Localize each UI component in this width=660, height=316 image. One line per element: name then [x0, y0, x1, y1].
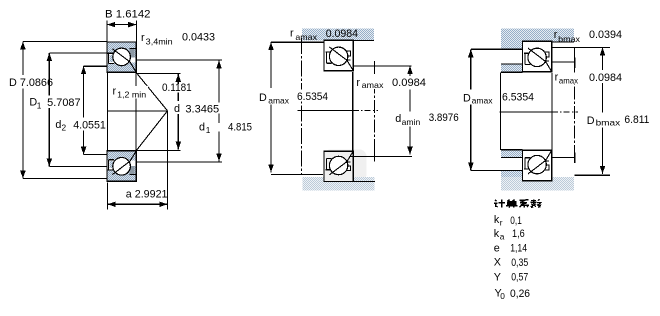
diagram3 ramax line upper: [552, 61, 575, 63]
svg-text:0.0394: 0.0394: [589, 29, 622, 41]
d bottom leader: [137, 149, 181, 151]
svg-text:e: e: [494, 242, 500, 254]
diagram3 shaft shoulder face line: [551, 73, 553, 149]
svg-text:amax: amax: [559, 75, 579, 85]
faint scan artifact blob: [324, 150, 367, 182]
svg-text:0.0433: 0.0433: [182, 32, 215, 44]
svg-text:amin: amin: [402, 117, 421, 127]
Damax dimension line (diagram2): [270, 42, 272, 88]
svg-text:X: X: [494, 257, 501, 269]
D dimension line: [22, 42, 24, 76]
D1 dimension line: [48, 53, 50, 96]
B arrow left: [107, 22, 115, 28]
diagram3 shaft shoulder strip lower-left: [501, 150, 523, 157]
Dbmax bottom leader: [575, 174, 611, 176]
diagram1 top bearing section (outer/inner ring + ball): [107, 42, 136, 72]
diagram2 support section (bottom light blue): [303, 177, 375, 191]
B dimension extension lines: [106, 20, 108, 42]
diagram2 housing bore edge right: [353, 39, 374, 41]
d2 bottom leader: [84, 154, 108, 156]
svg-text:r: r: [554, 29, 558, 41]
diagram1 axis line: [108, 110, 168, 112]
ramax label (middle, diagram2): [355, 76, 386, 89]
D1 top leader: [49, 52, 107, 54]
diagram2 right face tick bottom: [374, 151, 376, 162]
d2 top leader: [84, 65, 107, 67]
d1 top leader: [137, 59, 222, 61]
svg-text:D: D: [587, 115, 595, 127]
diagram1 contact line upper: [136, 73, 167, 111]
D top leader: [23, 40, 107, 42]
Dbmax top leader: [552, 47, 610, 49]
svg-text:1,2 min: 1,2 min: [117, 90, 146, 100]
svg-text:bmax: bmax: [558, 34, 581, 44]
svg-text:6.5354: 6.5354: [502, 91, 534, 103]
diagram3 housing bore edge right: [552, 41, 574, 43]
svg-text:1: 1: [206, 125, 211, 135]
a dimension extension lines: [107, 183, 109, 210]
svg-text:0,57: 0,57: [511, 271, 528, 283]
svg-text:4.815: 4.815: [228, 122, 252, 134]
a dimension line: [108, 203, 168, 205]
svg-text:4.0551: 4.0551: [73, 119, 106, 131]
diagram2 shaft shoulder face line: [352, 72, 354, 151]
D1 bottom leader: [49, 165, 107, 167]
damin top leader: [353, 65, 412, 67]
svg-text:3.8976: 3.8976: [429, 112, 459, 124]
svg-text:amax: amax: [472, 96, 494, 106]
svg-text:0.0984: 0.0984: [589, 72, 622, 84]
diagram2 right face tick top: [374, 62, 376, 73]
svg-text:r: r: [356, 77, 360, 89]
diagram3 axis line solid part: [500, 111, 552, 113]
svg-text:0: 0: [500, 291, 505, 301]
diagram3 shaft shoulder strip upper-left: [501, 64, 523, 72]
svg-text:6.811: 6.811: [624, 114, 649, 126]
diagram3 support section (bottom light blue): [501, 177, 574, 191]
svg-text:d: d: [174, 103, 180, 115]
diagram2 axis line dash-dot part: [353, 110, 378, 112]
diagram2 housing section (top blue): [302, 29, 374, 41]
B dimension line: [107, 24, 136, 26]
svg-text:amax: amax: [268, 95, 290, 105]
svg-text:2: 2: [62, 123, 67, 133]
svg-text:5.7087: 5.7087: [47, 97, 80, 109]
diagram3 housing section (top blue): [501, 29, 574, 43]
damin bottom leader: [351, 156, 413, 158]
svg-text:0,26: 0,26: [510, 288, 530, 300]
table heading 计算系数 (drawn as paths since CJK font unavailable): [494, 199, 541, 207]
d top leader: [137, 72, 181, 74]
svg-text:r: r: [500, 217, 503, 227]
svg-text:r: r: [290, 28, 294, 40]
diagram2 abutment face line right (dashed): [374, 61, 376, 157]
d1 dimension line: [218, 61, 220, 103]
diagram3 housing shoulder strip lower-left: [501, 171, 523, 178]
B arrow right: [128, 22, 136, 28]
svg-text:0,35: 0,35: [511, 257, 528, 269]
svg-text:1: 1: [37, 100, 42, 110]
Damax dimension line (diagram3): [470, 49, 472, 89]
svg-text:d: d: [395, 113, 401, 125]
diagram3 face tick bottom: [574, 153, 576, 164]
svg-text:B 1.6142: B 1.6142: [105, 8, 151, 20]
diagram3 top bearing section (outline): [523, 41, 552, 71]
diagram1 bottom bearing section (mirror): [107, 151, 136, 181]
D bottom leader: [23, 178, 108, 180]
svg-text:D 7.0866: D 7.0866: [9, 77, 53, 89]
svg-text:0.0984: 0.0984: [392, 77, 426, 89]
svg-text:0.0984: 0.0984: [326, 28, 358, 40]
d dimension line: [177, 74, 179, 84]
diagram3 shaft left cut line: [500, 72, 502, 150]
svg-text:a: a: [500, 231, 505, 241]
diagram3 housing shoulder strip upper-left: [501, 42, 523, 48]
svg-text:amax: amax: [295, 32, 317, 42]
svg-text:d: d: [199, 122, 205, 134]
svg-text:1,14: 1,14: [510, 243, 527, 255]
svg-text:D: D: [463, 93, 471, 105]
diagram1 right bore line: [135, 72, 137, 150]
svg-text:D: D: [259, 92, 267, 104]
svg-text:a 2.9921: a 2.9921: [126, 189, 168, 201]
svg-text:3,4min: 3,4min: [146, 36, 173, 46]
d1 bottom leader: [137, 161, 222, 163]
ramax label (diagram3): [553, 73, 580, 85]
diagram1 contact line lower: [136, 111, 167, 151]
svg-text:0.1181: 0.1181: [162, 82, 192, 94]
diagram3 face tick top: [574, 58, 576, 69]
diagram3 ramax line lower: [552, 157, 575, 159]
svg-text:Y: Y: [494, 271, 501, 283]
svg-text:r: r: [141, 32, 145, 44]
Damax top leader d3: [471, 48, 523, 50]
diagram3 bottom bearing section (outline): [523, 150, 552, 180]
svg-text:amax: amax: [362, 80, 385, 90]
diagram1 left bore line: [107, 72, 109, 150]
svg-text:r: r: [113, 86, 117, 98]
svg-text:1,6: 1,6: [512, 228, 525, 240]
diagram3 axis line dash-dot part: [552, 111, 578, 113]
diagram3 shoulder edge lines left: [501, 63, 523, 65]
diagram2 top bearing section (outline): [324, 40, 353, 70]
Damax bottom leader: [271, 173, 323, 175]
damin dimension line (diagram2): [409, 66, 411, 76]
d2 dimension line: [83, 66, 85, 117]
diagram2 axis line solid part: [297, 110, 353, 112]
diagram2 bottom seat edge right: [353, 180, 375, 182]
svg-text:bmax: bmax: [596, 118, 622, 128]
Damax bottom leader d3: [471, 170, 523, 172]
Dbmax dimension line (diagram3): [602, 48, 604, 71]
diagram2 abutment face line left: [301, 38, 303, 174]
diagram2 bottom bearing section (outline): [324, 151, 353, 181]
svg-text:0,1: 0,1: [510, 215, 522, 227]
svg-text:3.3465: 3.3465: [185, 103, 219, 115]
svg-text:6.5354: 6.5354: [297, 91, 328, 103]
Damax top leader: [271, 41, 324, 43]
svg-text:d: d: [55, 119, 61, 131]
diagram3 abutment face line (dashed): [574, 48, 576, 158]
